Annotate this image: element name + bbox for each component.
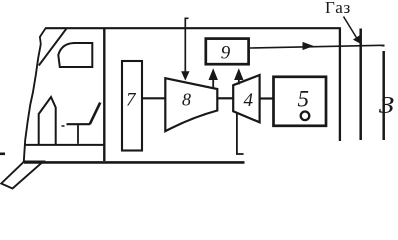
svg-text:9: 9 <box>221 43 231 64</box>
svg-text:Газ: Газ <box>325 0 351 17</box>
seat stem <box>77 124 79 144</box>
exhaust arrow right head <box>234 68 243 80</box>
component 7 box <box>122 61 142 151</box>
plow <box>1 162 43 189</box>
windshield diagonal <box>39 29 67 66</box>
gas main pipe line 2 <box>382 51 385 140</box>
air intake arrow shaft <box>184 18 186 73</box>
turbine 4 trapezoid <box>233 75 259 122</box>
exhaust arrow left shaft <box>212 79 214 88</box>
driver console <box>39 97 56 145</box>
shaft 8-4 <box>218 97 234 99</box>
seat back <box>90 103 100 125</box>
body right edge <box>339 28 341 142</box>
windshield slant <box>40 28 46 37</box>
seat bar <box>67 123 91 125</box>
svg-text:4: 4 <box>244 90 254 111</box>
Gaz pointer arrowhead <box>353 35 361 44</box>
air intake arrowhead <box>181 71 189 80</box>
cab window <box>58 43 92 67</box>
exhaust arrow right shaft <box>238 79 240 85</box>
heat exchanger 9 box <box>206 39 249 65</box>
air intake arrow hook <box>185 17 188 19</box>
nose notch <box>40 37 41 45</box>
svg-text:3: 3 <box>378 92 395 119</box>
exhaust arrow left head <box>209 68 218 80</box>
gas line arrowhead <box>303 42 314 50</box>
svg-text:8: 8 <box>182 90 191 110</box>
Gaz pointer line <box>344 17 358 39</box>
cab rear wall <box>103 28 105 161</box>
shaft 7-8 <box>142 97 166 99</box>
left edge dash artifact <box>0 153 5 156</box>
gas main pipe line 1 <box>359 29 362 141</box>
drain pipe from 4 <box>237 112 244 154</box>
compressor 8 trapezoid <box>165 78 217 131</box>
generator 5 box <box>274 77 327 126</box>
gas line horizontal with arrow <box>250 45 385 48</box>
floor top line <box>25 144 104 146</box>
bottom frame line <box>24 161 245 164</box>
small circle in 5 <box>301 112 310 121</box>
shaft 4-5 <box>260 97 273 99</box>
svg-text:5: 5 <box>298 87 310 112</box>
svg-text:7: 7 <box>126 90 137 111</box>
nose front curve <box>24 44 41 162</box>
body top edge <box>46 27 341 29</box>
small dash near seat <box>62 125 65 127</box>
